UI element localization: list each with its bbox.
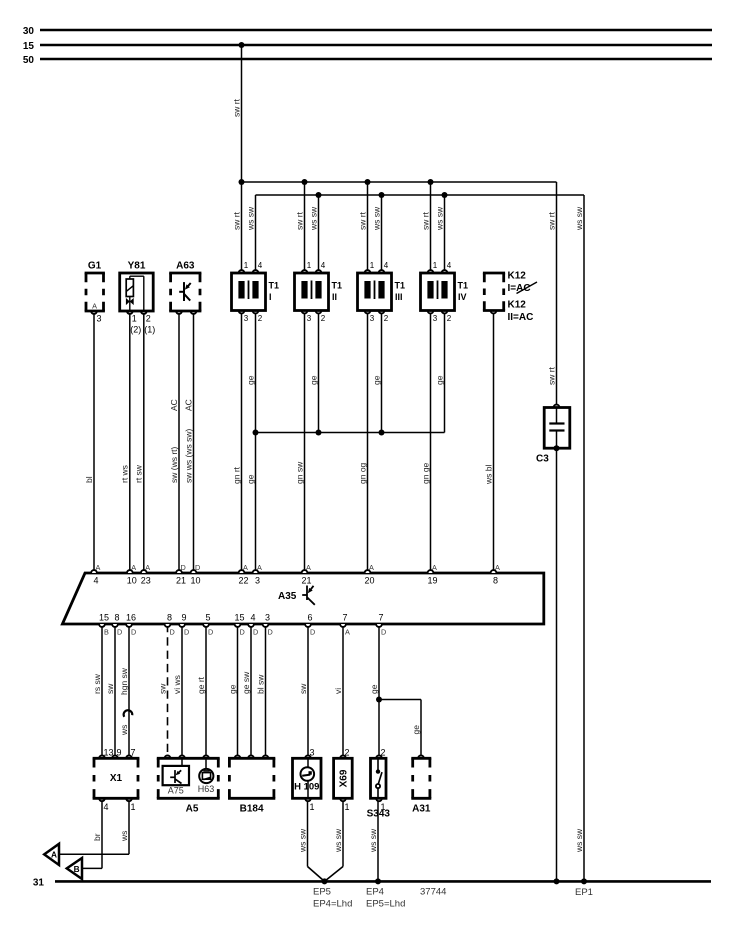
svg-text:4: 4: [250, 613, 255, 623]
svg-text:1: 1: [244, 261, 249, 270]
svg-text:ge: ge: [308, 375, 318, 385]
svg-text:8: 8: [167, 613, 172, 623]
svg-text:ws sw: ws sw: [297, 828, 307, 853]
svg-text:9: 9: [117, 748, 122, 758]
svg-text:EP1: EP1: [575, 887, 593, 898]
svg-text:A: A: [96, 563, 101, 572]
svg-text:sw rt: sw rt: [231, 98, 241, 117]
svg-text:ws sw: ws sw: [371, 206, 381, 231]
svg-text:4: 4: [384, 261, 389, 270]
svg-text:15: 15: [234, 613, 244, 623]
svg-text:sw: sw: [298, 683, 308, 694]
svg-text:B: B: [104, 628, 109, 637]
svg-text:S343: S343: [367, 809, 391, 820]
svg-text:ws sw: ws sw: [434, 206, 444, 231]
svg-text:sw: sw: [105, 683, 115, 694]
svg-text:5: 5: [205, 613, 210, 623]
svg-text:hgn sw: hgn sw: [119, 667, 129, 695]
svg-text:sw rt: sw rt: [357, 211, 367, 230]
svg-text:8: 8: [493, 576, 498, 586]
svg-text:A: A: [306, 563, 311, 572]
svg-text:21: 21: [176, 576, 186, 586]
svg-text:7: 7: [342, 613, 347, 623]
svg-text:vi ws: vi ws: [172, 675, 182, 694]
svg-text:10: 10: [127, 576, 137, 586]
svg-text:3: 3: [310, 748, 315, 758]
svg-text:ge: ge: [411, 725, 421, 735]
svg-text:III: III: [395, 292, 403, 302]
svg-text:31: 31: [33, 877, 45, 888]
svg-text:A35: A35: [278, 591, 297, 602]
svg-text:3: 3: [307, 314, 312, 323]
svg-text:X69: X69: [338, 769, 349, 787]
svg-text:37744: 37744: [420, 887, 446, 898]
svg-text:2: 2: [321, 314, 326, 323]
svg-text:D: D: [170, 628, 175, 637]
svg-text:ge: ge: [245, 375, 255, 385]
svg-text:D: D: [184, 628, 189, 637]
svg-text:7: 7: [131, 748, 136, 758]
svg-text:(1): (1): [144, 325, 155, 335]
svg-text:3: 3: [255, 576, 260, 586]
svg-text:B184: B184: [240, 804, 264, 815]
svg-text:sw rt: sw rt: [420, 211, 430, 230]
svg-text:23: 23: [141, 576, 151, 586]
svg-text:T1: T1: [395, 281, 406, 291]
svg-text:15: 15: [23, 41, 35, 52]
svg-text:sw rt: sw rt: [231, 211, 241, 230]
svg-text:II=AC: II=AC: [508, 312, 534, 323]
svg-text:T1: T1: [269, 281, 280, 291]
svg-text:2: 2: [381, 748, 386, 758]
svg-text:ge sw: ge sw: [241, 671, 251, 694]
svg-text:A75: A75: [168, 786, 184, 796]
svg-text:4: 4: [258, 261, 263, 270]
svg-text:A: A: [369, 563, 374, 572]
svg-text:ws sw: ws sw: [574, 828, 584, 853]
svg-text:D: D: [195, 563, 200, 572]
svg-text:D: D: [131, 628, 136, 637]
svg-text:ws sw: ws sw: [574, 206, 584, 231]
svg-text:3: 3: [370, 314, 375, 323]
svg-text:IV: IV: [458, 292, 467, 302]
svg-text:D: D: [253, 628, 258, 637]
svg-text:4: 4: [104, 802, 109, 812]
svg-text:T1: T1: [332, 281, 343, 291]
svg-text:1: 1: [370, 261, 375, 270]
svg-text:sw: sw: [157, 683, 167, 694]
svg-text:8: 8: [114, 613, 119, 623]
svg-text:9: 9: [181, 613, 186, 623]
svg-text:2: 2: [258, 314, 263, 323]
svg-text:I=AC: I=AC: [508, 283, 531, 294]
svg-text:2: 2: [447, 314, 452, 323]
svg-text:19: 19: [427, 576, 437, 586]
svg-text:II: II: [332, 292, 337, 302]
svg-text:30: 30: [23, 26, 35, 37]
svg-text:rt ws: rt ws: [120, 465, 130, 483]
svg-text:D: D: [268, 628, 273, 637]
svg-text:br: br: [92, 833, 102, 841]
svg-text:ge: ge: [245, 474, 255, 484]
svg-text:3: 3: [265, 613, 270, 623]
svg-text:ge rt: ge rt: [196, 676, 206, 694]
svg-text:A: A: [495, 563, 500, 572]
svg-text:Y81: Y81: [128, 261, 146, 272]
svg-text:D: D: [240, 628, 245, 637]
svg-text:A: A: [432, 563, 437, 572]
svg-text:D: D: [381, 628, 386, 637]
svg-text:1: 1: [345, 802, 350, 812]
svg-text:sw ws (ws sw): sw ws (ws sw): [183, 429, 193, 483]
svg-text:4: 4: [321, 261, 326, 270]
svg-text:I: I: [269, 292, 272, 302]
svg-text:1: 1: [307, 261, 312, 270]
svg-text:EP4=Lhd: EP4=Lhd: [313, 899, 352, 910]
svg-text:G1: G1: [88, 261, 102, 272]
svg-text:ws: ws: [119, 725, 129, 736]
svg-text:ge: ge: [227, 684, 237, 694]
svg-text:T1: T1: [458, 281, 469, 291]
svg-text:A5: A5: [186, 804, 199, 815]
svg-text:13: 13: [104, 748, 114, 758]
svg-text:2: 2: [146, 314, 151, 324]
svg-text:EP5=Lhd: EP5=Lhd: [366, 899, 405, 910]
svg-text:21: 21: [301, 576, 311, 586]
svg-text:4: 4: [93, 576, 98, 586]
svg-text:1: 1: [132, 314, 137, 324]
svg-text:bl: bl: [84, 476, 94, 483]
svg-text:15: 15: [99, 613, 109, 623]
svg-text:A: A: [243, 563, 248, 572]
svg-text:(2): (2): [130, 325, 141, 335]
svg-text:1: 1: [131, 802, 136, 812]
svg-text:50: 50: [23, 55, 35, 66]
svg-text:A: A: [51, 850, 57, 860]
svg-text:4: 4: [447, 261, 452, 270]
svg-text:A: A: [257, 563, 262, 572]
svg-text:X1: X1: [110, 773, 123, 784]
svg-text:A: A: [92, 302, 97, 311]
svg-text:EP4: EP4: [366, 887, 384, 898]
svg-text:A: A: [131, 563, 136, 572]
svg-text:ws sw: ws sw: [333, 828, 343, 853]
svg-text:gn og: gn og: [357, 462, 367, 484]
svg-text:rs sw: rs sw: [92, 673, 102, 694]
svg-text:AC: AC: [169, 399, 179, 411]
svg-text:ge: ge: [434, 375, 444, 385]
svg-text:sw rt: sw rt: [294, 211, 304, 230]
svg-text:H 109: H 109: [294, 782, 319, 793]
svg-text:K12: K12: [508, 271, 527, 282]
svg-text:7: 7: [378, 613, 383, 623]
svg-text:ws sw: ws sw: [308, 206, 318, 231]
svg-text:bl sw: bl sw: [255, 674, 265, 694]
svg-text:sw (ws rt): sw (ws rt): [169, 446, 179, 483]
svg-text:3: 3: [97, 314, 102, 324]
svg-text:AC: AC: [183, 399, 193, 411]
svg-text:A63: A63: [176, 261, 195, 272]
svg-text:H63: H63: [198, 784, 215, 794]
svg-text:A31: A31: [412, 804, 431, 815]
svg-text:gn sw: gn sw: [294, 461, 304, 484]
svg-text:D: D: [310, 628, 315, 637]
svg-text:ws: ws: [119, 831, 129, 842]
svg-text:EP5: EP5: [313, 887, 331, 898]
svg-text:K12: K12: [508, 300, 527, 311]
svg-text:D: D: [208, 628, 213, 637]
svg-text:sw rt: sw rt: [546, 366, 556, 385]
svg-text:3: 3: [244, 314, 249, 323]
svg-text:3: 3: [433, 314, 438, 323]
svg-text:10: 10: [190, 576, 200, 586]
svg-text:sw rt: sw rt: [546, 211, 556, 230]
svg-text:6: 6: [307, 613, 312, 623]
svg-text:gn ge: gn ge: [420, 462, 430, 484]
svg-text:C3: C3: [536, 454, 549, 465]
svg-text:B: B: [74, 864, 80, 874]
svg-text:1: 1: [310, 802, 315, 812]
svg-text:2: 2: [384, 314, 389, 323]
svg-text:A: A: [345, 628, 350, 637]
svg-text:D: D: [181, 563, 186, 572]
svg-text:ge: ge: [369, 684, 379, 694]
svg-text:ws bl: ws bl: [483, 465, 493, 485]
svg-text:ws sw: ws sw: [368, 828, 378, 853]
svg-text:ws sw: ws sw: [245, 206, 255, 231]
svg-text:vi: vi: [333, 688, 343, 694]
svg-text:22: 22: [238, 576, 248, 586]
svg-text:20: 20: [364, 576, 374, 586]
svg-text:1: 1: [433, 261, 438, 270]
svg-text:rt sw: rt sw: [134, 464, 144, 483]
svg-text:A: A: [145, 563, 150, 572]
svg-text:gn rt: gn rt: [231, 466, 241, 484]
svg-text:D: D: [117, 628, 122, 637]
svg-text:ge: ge: [371, 375, 381, 385]
svg-text:2: 2: [345, 748, 350, 758]
svg-text:16: 16: [126, 613, 136, 623]
